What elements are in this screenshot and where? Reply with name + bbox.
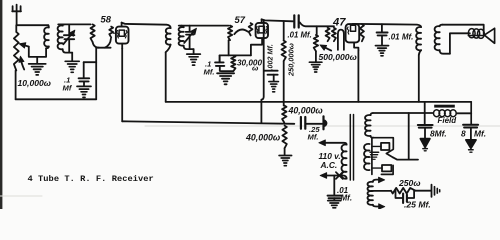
wire to sideways ground <box>415 190 430 192</box>
transformer T4 core <box>349 115 351 181</box>
resistor R13 screen 47 <box>360 24 364 41</box>
svg-text:58: 58 <box>101 14 112 25</box>
wire speaker top <box>443 25 484 35</box>
svg-text:250ω: 250ω <box>398 178 421 188</box>
wire rectifier output line <box>373 112 433 114</box>
rectifier V4 80 <box>370 138 393 175</box>
svg-text:.01 Mf.: .01 Mf. <box>288 31 312 40</box>
transformer T2 primary <box>166 28 171 45</box>
wire T1 ground drop <box>36 57 38 64</box>
wire cathode return 58 <box>95 48 97 100</box>
resistor R2 grid suppressor <box>91 24 95 42</box>
ground G3 <box>77 86 91 97</box>
wire antenna node to T1 primary <box>17 24 49 26</box>
wire 47 cathode down <box>357 50 359 102</box>
ground arrow left <box>420 139 430 148</box>
cathode bus wire <box>122 121 294 124</box>
tube V3 47 <box>346 24 360 50</box>
choke field coil <box>434 105 457 117</box>
svg-text:ω: ω <box>252 64 259 73</box>
wire 57 cathode bracket <box>220 54 251 56</box>
ground bus left <box>16 98 97 100</box>
resistor R6 30,000 <box>231 55 235 71</box>
wire 58 plate <box>122 23 171 29</box>
speaker field winding <box>368 180 382 207</box>
svg-text:Mf.: Mf. <box>308 133 319 142</box>
svg-text:.25 Mf.: .25 Mf. <box>404 200 431 210</box>
wire T3 primary to bus <box>418 55 420 102</box>
transformer T2 secondary <box>181 26 184 28</box>
ground G10 <box>328 201 341 211</box>
potentiometer R10 500,000 <box>316 26 318 35</box>
wire grid cap arc 57 <box>234 30 248 35</box>
wire 57 plate <box>262 19 293 21</box>
svg-text:10,000ω: 10,000ω <box>18 78 51 88</box>
svg-text:.01 Mf.: .01 Mf. <box>389 33 414 42</box>
ground arrow right <box>466 140 476 148</box>
resistor R3 grid cap 58 <box>109 27 113 38</box>
capacitor C4 .1 Mf <box>215 61 224 63</box>
svg-text:250,000ω: 250,000ω <box>287 43 296 77</box>
filament 47 <box>338 30 344 50</box>
capacitor C9 8Mf left <box>424 102 426 125</box>
resistor R7 250,000 plate load <box>283 21 285 40</box>
resistor R11 grid 47 <box>326 28 330 41</box>
capacitor C10 8Mf right <box>463 124 478 126</box>
grid clip 47 <box>322 116 324 129</box>
ground G5 57 cathode <box>217 73 234 84</box>
B+ bus <box>166 101 472 103</box>
svg-text:Mf.: Mf. <box>474 129 486 139</box>
tube V2 57 <box>251 19 268 55</box>
svg-text:.002 Mf.: .002 Mf. <box>266 44 275 70</box>
speaker voice coil <box>468 29 484 39</box>
resistor R4 grid suppressor 57 <box>228 26 232 40</box>
svg-text:30,000: 30,000 <box>237 59 262 68</box>
capacitor C6 .25 Mf coupling <box>300 117 302 129</box>
antenna <box>12 5 21 26</box>
wire B+ down right <box>470 102 472 124</box>
resistor R14 250w <box>391 188 415 194</box>
wire R1 to ground bus <box>15 71 17 100</box>
svg-text:8: 8 <box>461 129 466 139</box>
wire C1 to ground G2 <box>71 53 73 61</box>
svg-text:Mf.: Mf. <box>204 68 215 77</box>
plug arrow bottom <box>320 173 327 179</box>
ground G7 <box>279 156 292 166</box>
wire 57 plate branch down <box>261 21 263 123</box>
wire grid return 57 <box>228 40 230 55</box>
ground G6 <box>269 82 279 92</box>
wire speaker return <box>450 33 470 53</box>
wire grid top 58 <box>58 23 90 25</box>
wire 47 plate <box>353 24 422 27</box>
svg-text:8Mf.: 8Mf. <box>430 129 447 139</box>
series capacitor C7 .01 MF <box>293 15 295 27</box>
potentiometer R1 10,000&#969; <box>14 32 19 71</box>
svg-text:Mf.: Mf. <box>341 194 353 203</box>
label arrow 10,000 <box>21 58 25 70</box>
ground G1 <box>29 64 46 75</box>
svg-text:A.C.: A.C. <box>320 160 338 170</box>
wire antenna node down to R1 <box>15 25 17 32</box>
variable capacitor C3 <box>184 26 195 49</box>
ground G4 <box>193 49 195 54</box>
plug arrow top <box>319 140 326 146</box>
wire C7 to pot R10 <box>300 22 334 26</box>
wire cathode cap to ground <box>220 70 233 72</box>
transformer T4 HV secondary <box>365 115 371 136</box>
svg-text:Field: Field <box>438 116 458 125</box>
ground sideways <box>431 185 433 197</box>
ground G2 <box>65 61 79 72</box>
svg-text:40,000ω: 40,000ω <box>288 106 324 116</box>
wire R1 wiper bracket <box>29 47 46 57</box>
X switch mark <box>336 172 343 179</box>
resistor R12 grid2 47 <box>332 28 336 41</box>
ground G8 <box>309 62 322 72</box>
capacitor C5 .002 Mf <box>265 70 278 72</box>
resistor R8 40,000 upper <box>282 106 286 123</box>
variable capacitor C1 <box>63 24 74 52</box>
faint scan streaks <box>145 125 500 127</box>
wire rectifier to output line <box>393 113 418 160</box>
svg-text:Mf: Mf <box>63 84 73 93</box>
wire grid top 57 <box>179 25 229 27</box>
resistor R9 40,000 lower <box>282 126 286 149</box>
transformer T4 primary <box>342 144 347 178</box>
tube V1 58 <box>113 23 128 49</box>
wire field tap <box>371 190 391 192</box>
scan border left edge <box>0 0 2 209</box>
wiper arrow R10 <box>322 46 331 51</box>
ground G9 <box>376 46 389 56</box>
wire grid hook 58 <box>93 42 99 48</box>
speaker horn <box>484 28 494 43</box>
transformer T1 primary <box>47 25 50 27</box>
svg-text:57: 57 <box>235 14 246 25</box>
wire .1Mf branch <box>84 61 97 63</box>
wire T2 primary to B+ bus <box>165 52 167 102</box>
svg-text:500,000ω: 500,000ω <box>319 52 357 62</box>
transformer T1 secondary <box>58 25 63 49</box>
capacitor C12 .25 MF <box>396 191 403 198</box>
svg-text:4 Tube T. R. F. Receiver: 4 Tube T. R. F. Receiver <box>28 174 154 184</box>
transformer T3 primary <box>416 27 421 50</box>
wire 58 cathode down <box>121 49 123 122</box>
resistor R5 grid cap 57 <box>249 23 253 35</box>
svg-text:47: 47 <box>332 17 346 29</box>
transformer T4 5V winding <box>364 144 370 170</box>
capacitor C2 .1 Mf <box>79 77 90 79</box>
wiper arrow R1 <box>21 44 29 46</box>
capacitor C8 .01 Mf <box>381 24 383 32</box>
transformer T3 secondary <box>435 26 440 50</box>
svg-text:40,000ω: 40,000ω <box>245 133 281 143</box>
capacitor C11 .01 line <box>333 176 335 196</box>
